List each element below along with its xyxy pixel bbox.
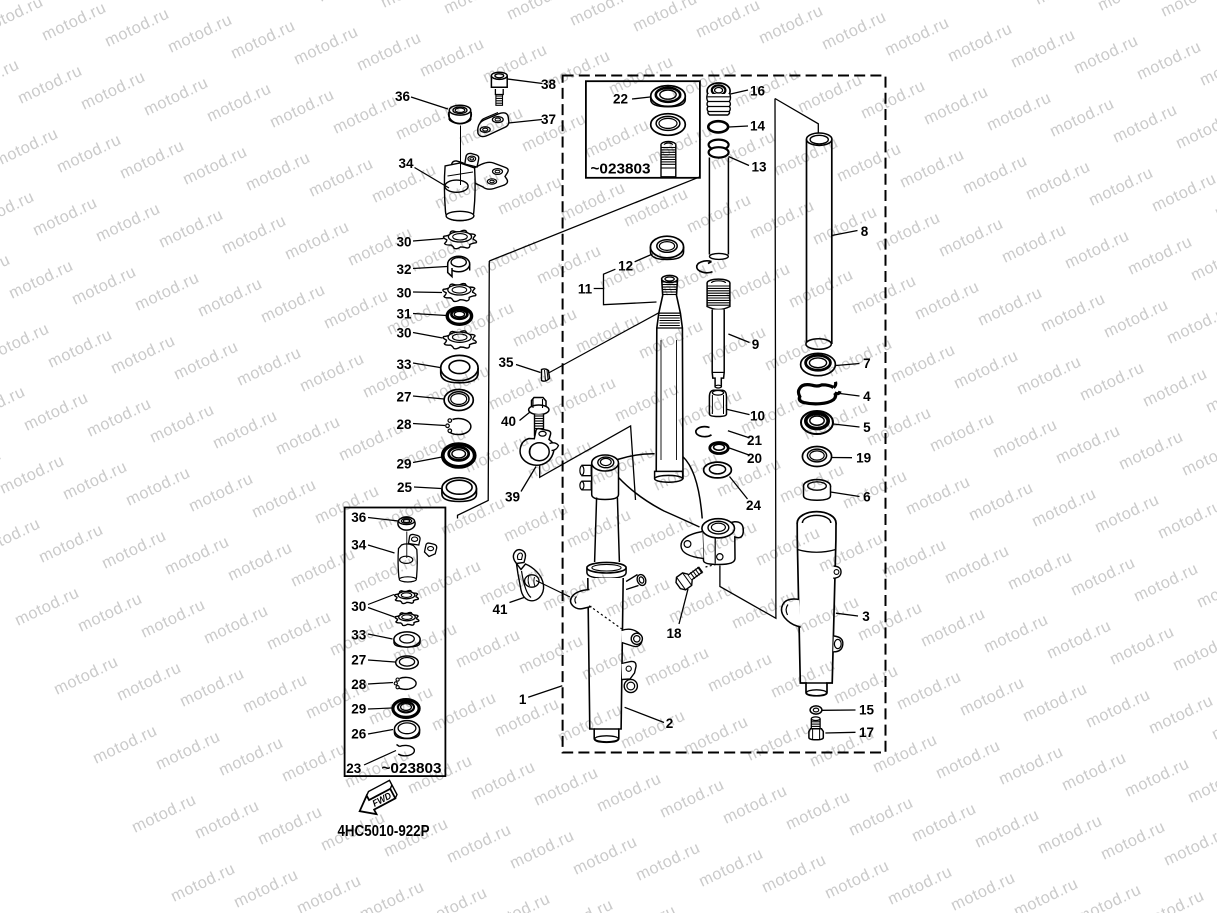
label 25 xyxy=(397,480,413,495)
label 29 bottom xyxy=(351,702,366,717)
label 5 xyxy=(863,420,871,435)
damper rod upper tube xyxy=(709,158,728,260)
label 34 xyxy=(398,156,414,171)
svg-text:26: 26 xyxy=(351,727,367,742)
label 30 upper xyxy=(396,235,411,250)
svg-text:40: 40 xyxy=(501,414,516,429)
ring nut 30 upper xyxy=(443,230,476,248)
o-ring 14 xyxy=(708,121,728,132)
FWD arrow xyxy=(353,780,400,820)
spacer 26 (bottom box) xyxy=(394,721,419,739)
oil seal 7 xyxy=(801,353,836,375)
pointer from zone corner to tube 8 top xyxy=(775,99,818,137)
label 12 xyxy=(618,259,633,274)
washer 19 xyxy=(802,447,831,467)
holder 39 xyxy=(520,429,558,466)
leader 33 bottom xyxy=(368,634,393,639)
svg-text:15: 15 xyxy=(859,703,875,718)
leader 10 xyxy=(727,409,750,414)
svg-text:41: 41 xyxy=(492,602,508,617)
leader 7 xyxy=(836,364,860,366)
clip 28 xyxy=(446,419,471,435)
label ~023803 bottom box xyxy=(382,760,442,777)
leader 2 xyxy=(625,707,664,722)
label 16 xyxy=(750,84,766,99)
svg-text:34: 34 xyxy=(351,538,367,553)
ring nut 30a (bottom box) xyxy=(395,590,419,603)
outer tube 3 (right) xyxy=(781,512,842,696)
label 36 xyxy=(395,89,411,104)
gasket washer 15 xyxy=(810,706,822,714)
label 27 xyxy=(396,390,411,405)
leader 14 xyxy=(729,126,748,127)
label 30 lower xyxy=(396,326,411,341)
leader 38 xyxy=(508,79,543,84)
svg-text:24: 24 xyxy=(746,498,762,513)
guide line nut 36 to stem xyxy=(460,126,462,186)
leader 36 bottom xyxy=(368,518,399,522)
label 40 xyxy=(501,414,516,429)
label 3 xyxy=(862,609,870,624)
leader 27 bottom xyxy=(368,660,395,662)
svg-text:30: 30 xyxy=(396,286,411,301)
dotted leader bolt 18 to clamp xyxy=(706,564,718,567)
bracket 11 xyxy=(594,269,657,305)
svg-text:19: 19 xyxy=(856,451,871,466)
zone line right of steering stack xyxy=(458,261,490,519)
leader 37 xyxy=(509,120,543,124)
label 22 xyxy=(613,92,628,107)
svg-text:13: 13 xyxy=(751,160,767,175)
label 23 xyxy=(346,761,362,776)
clip 23 (bottom box) xyxy=(397,745,415,756)
leader 27 xyxy=(413,396,444,399)
label 37 xyxy=(541,112,556,127)
label 29 xyxy=(396,457,411,472)
leader 34 bottom xyxy=(368,545,395,553)
outer tube 2 (left) xyxy=(571,562,648,742)
svg-text:27: 27 xyxy=(351,653,366,668)
label 9 xyxy=(752,337,760,352)
handlebar holder 37 xyxy=(478,113,509,137)
oil seal 29 (bottom box) xyxy=(393,700,419,718)
label 8 xyxy=(861,224,869,239)
label 20 xyxy=(747,451,762,466)
leader 32 xyxy=(413,267,447,269)
washer in top box xyxy=(651,114,686,136)
label 15 xyxy=(859,703,875,718)
svg-text:34: 34 xyxy=(398,156,414,171)
leader 29 bottom xyxy=(368,708,392,709)
label 10 xyxy=(750,409,765,424)
washer 27 (bottom box) xyxy=(396,656,419,669)
washer 27 xyxy=(444,390,473,411)
plug screw in top box xyxy=(661,142,676,177)
label 17 xyxy=(859,725,874,740)
label 34 bottom xyxy=(351,538,367,553)
label 14 xyxy=(750,119,766,134)
steering stem 34 (bottom box) xyxy=(398,532,437,583)
label 30 middle xyxy=(396,286,411,301)
snap ring on damper rod xyxy=(697,261,713,273)
svg-text:11: 11 xyxy=(578,282,593,297)
leader 30 lower xyxy=(413,333,443,339)
label 18 xyxy=(666,626,682,641)
leader 9 xyxy=(728,334,749,343)
leader 40 xyxy=(520,412,531,421)
cap bolt 16 xyxy=(707,83,731,115)
label 39 xyxy=(505,490,520,505)
damper rod lower xyxy=(712,310,724,389)
inner fork tube 11 body xyxy=(655,275,683,482)
zone line around lower bracket xyxy=(540,426,636,500)
label 11 xyxy=(578,282,593,297)
oil lock piece 10 xyxy=(709,390,726,416)
svg-text:18: 18 xyxy=(666,626,682,641)
washer 12 xyxy=(650,236,683,259)
leader 31 xyxy=(413,314,447,316)
bearing race 33 xyxy=(441,355,478,382)
top solid box (early model parts) xyxy=(586,81,700,178)
dashed assembly border xyxy=(563,76,886,753)
oil seal 5 xyxy=(801,411,833,434)
leader 39 xyxy=(521,467,536,492)
leader 26 bottom xyxy=(368,730,393,735)
slide bushing 6 xyxy=(804,480,831,501)
label 26 bottom xyxy=(351,727,367,742)
leader 30 bottom a xyxy=(368,595,394,605)
label 28 bottom xyxy=(351,677,367,692)
label 2 xyxy=(666,716,674,731)
indication line 41 to axle bracket xyxy=(536,581,570,598)
svg-text:~023803: ~023803 xyxy=(591,161,651,178)
leader 41 xyxy=(510,598,525,603)
leader 3 xyxy=(836,613,858,616)
bolt 38 xyxy=(491,72,507,105)
leader 35 to label xyxy=(516,365,541,373)
leader 23 xyxy=(364,751,396,766)
label 1 xyxy=(519,692,527,707)
indication line 35 to inner tube xyxy=(549,311,662,373)
leader 33 xyxy=(413,363,440,368)
leader 30 bottom b xyxy=(368,608,395,618)
label 28 xyxy=(396,417,412,432)
svg-text:25: 25 xyxy=(397,480,413,495)
under bracket 34 area (lower triple clamp) xyxy=(580,454,743,565)
label 35 xyxy=(498,355,514,370)
leader 25 xyxy=(414,487,441,489)
steering stem 34 xyxy=(444,153,508,220)
svg-text:29: 29 xyxy=(351,702,366,717)
label 7 xyxy=(863,356,871,371)
damper piston xyxy=(707,279,730,309)
leader 29 xyxy=(413,457,442,463)
leader 12 xyxy=(635,254,653,262)
label ~023803 top box xyxy=(591,161,651,178)
stopper piece 35 xyxy=(542,369,550,381)
leader 34 xyxy=(415,168,450,189)
leader 17 xyxy=(825,731,855,734)
leader 30 upper xyxy=(413,239,444,242)
label 4 xyxy=(863,389,871,404)
label 32 xyxy=(396,262,411,277)
leader 28 bottom xyxy=(368,683,393,685)
ring nut 30 lower xyxy=(443,331,476,349)
leader 21 xyxy=(728,431,750,438)
o-ring 21 xyxy=(696,427,712,437)
drain bolt 17 xyxy=(809,717,823,740)
leader 13 xyxy=(729,157,750,166)
svg-text:30: 30 xyxy=(351,599,366,614)
leader 30 middle xyxy=(413,291,442,294)
washer 20 xyxy=(710,443,728,454)
oil seal 29 xyxy=(443,444,475,467)
bottom solid box (early model parts) xyxy=(345,508,446,777)
label 27 bottom xyxy=(351,653,366,668)
label 13 xyxy=(751,160,767,175)
leader 4 xyxy=(836,393,860,396)
ring nut 30b (bottom box) xyxy=(395,612,419,625)
pinch bolt 18 xyxy=(674,563,705,592)
lock washer 32 xyxy=(448,256,470,276)
svg-text:36: 36 xyxy=(395,89,411,104)
leader 5 xyxy=(834,424,860,427)
nut 36 xyxy=(449,105,472,123)
leader 16 xyxy=(731,90,749,94)
label 36 bottom xyxy=(351,510,367,525)
nut 36 (bottom box) xyxy=(398,517,415,530)
leader 1 xyxy=(528,686,562,697)
flange bolt 40 xyxy=(529,398,549,436)
label 31 xyxy=(396,307,412,322)
fork tube 8 (right leg inner tube) xyxy=(806,133,832,349)
clip 28 (bottom box) xyxy=(394,677,416,689)
bearing 31 xyxy=(447,308,471,325)
ring nut 30 middle xyxy=(443,284,476,302)
svg-text:36: 36 xyxy=(351,510,367,525)
label 21 xyxy=(747,433,763,448)
leader 22 xyxy=(632,97,650,99)
label 41 xyxy=(492,602,508,617)
svg-text:35: 35 xyxy=(498,355,514,370)
leader 36 xyxy=(411,97,448,109)
label 6 xyxy=(863,490,871,505)
left leg inner tube lower section xyxy=(595,498,620,563)
svg-text:27: 27 xyxy=(396,390,411,405)
bearing race 33 (bottom box) xyxy=(394,632,420,647)
leader 6 xyxy=(831,492,860,497)
zone line to top box xyxy=(489,177,700,261)
drawing number 4HC5010-922P xyxy=(338,823,430,840)
piston rings 13 xyxy=(709,140,729,158)
label 19 xyxy=(856,451,871,466)
clip tool 41 xyxy=(513,550,543,601)
plain washer 24 xyxy=(704,462,732,478)
label 24 xyxy=(746,498,762,513)
leader 8 xyxy=(832,231,858,236)
stopper ring 4 xyxy=(798,382,840,404)
svg-text:39: 39 xyxy=(505,490,520,505)
leader 15 xyxy=(823,709,856,711)
label 38 xyxy=(541,77,557,92)
zone line right of damper rod column xyxy=(720,99,776,619)
label 30 bottom xyxy=(351,599,366,614)
leader 24 xyxy=(730,477,748,500)
leader 28 xyxy=(413,424,445,426)
svg-text:1: 1 xyxy=(519,692,527,707)
label 33 xyxy=(396,357,412,372)
leader 20 xyxy=(729,448,749,455)
spacer 25 xyxy=(442,478,477,502)
leader 18 xyxy=(679,589,688,624)
leader 19 xyxy=(832,457,853,459)
label 33 bottom xyxy=(351,628,367,643)
oil seal 22 (top box) xyxy=(651,86,686,107)
